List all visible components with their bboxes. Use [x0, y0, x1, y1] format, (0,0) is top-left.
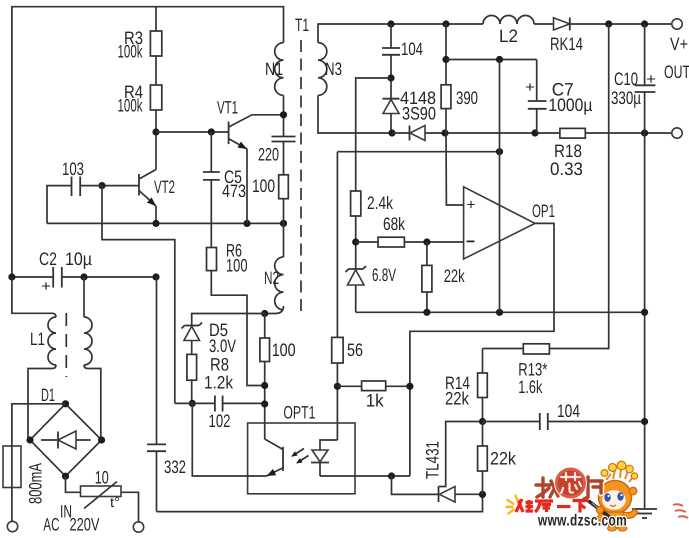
svg-text:D1: D1 — [41, 385, 55, 405]
node bus VT2 emitter — [152, 220, 159, 227]
node C2 left — [8, 273, 15, 280]
red squiggle right edge — [673, 504, 688, 518]
node output rail 390 — [442, 20, 449, 27]
inductor L1 right winding — [84, 317, 92, 365]
wire R4 to VT2 collector — [155, 110, 157, 170]
svg-text:www.dzsc.com: www.dzsc.com — [537, 513, 627, 530]
wire RK14 to V+ terminal — [570, 23, 672, 25]
resistor R4 — [150, 85, 161, 110]
svg-text:22k: 22k — [444, 266, 466, 286]
inductor L2 — [483, 16, 534, 24]
wire R8 bottom — [191, 380, 193, 403]
svg-text:TL431: TL431 — [423, 441, 443, 479]
svg-text:+: + — [41, 278, 51, 295]
red 维库一下 — [516, 499, 589, 513]
node L1 right top — [80, 273, 87, 280]
resistor R13 — [523, 344, 549, 354]
svg-text:C2: C2 — [39, 249, 57, 269]
capacitor 102 — [175, 396, 265, 431]
resistor 100 (N2) — [260, 338, 270, 362]
node output rail R13 — [605, 20, 612, 27]
resistor 390 — [441, 24, 478, 133]
resistor 68k — [378, 237, 404, 247]
svg-text:N3: N3 — [325, 59, 342, 79]
svg-text:+: + — [646, 71, 656, 88]
node R6 branch — [261, 382, 268, 389]
node D1 left — [26, 436, 33, 443]
svg-text:800mA: 800mA — [26, 463, 46, 504]
wire LED cathode to output vertical — [320, 475, 410, 477]
svg-text:332: 332 — [164, 457, 186, 477]
capacitor 332 — [147, 277, 186, 512]
svg-text:100: 100 — [272, 340, 296, 360]
svg-text:RK14: RK14 — [550, 34, 583, 54]
OPT1 light arrows — [291, 449, 309, 464]
svg-text:R18: R18 — [554, 141, 582, 161]
svg-text:68k: 68k — [383, 214, 406, 234]
resistor 22k (lower divider) — [478, 422, 517, 495]
wire 100 to OPT1 collector — [264, 362, 266, 440]
wire lower reference rail — [356, 311, 645, 313]
wire fuse internal — [11, 446, 13, 521]
capacitor C10 — [611, 24, 656, 133]
svg-text:0.33: 0.33 — [550, 159, 583, 179]
wire 56 feed vertical — [336, 152, 338, 338]
resistor 100 (snubber) — [279, 175, 289, 199]
wire R18 to OUT terminal — [585, 132, 672, 134]
resistor R18 — [560, 128, 585, 138]
bridge rectifier D1 — [30, 385, 102, 476]
wire R3-R4 — [155, 56, 157, 85]
yellow starburst — [507, 496, 518, 514]
svg-text:2.4k: 2.4k — [367, 193, 394, 213]
winding N1 — [275, 43, 284, 96]
wire main emitter bus — [47, 222, 284, 224]
magnifier circle with 芯 — [554, 467, 587, 500]
capacitor C2 — [12, 249, 156, 295]
wire L1 right top — [83, 277, 85, 317]
svg-text:22k: 22k — [490, 449, 517, 469]
node 56/1k/LED — [334, 383, 341, 390]
svg-text:t°: t° — [110, 494, 120, 510]
svg-text:3S90: 3S90 — [402, 104, 436, 124]
wire R3 top feed — [155, 7, 157, 31]
watermark dzsc.com group — [507, 461, 689, 531]
OPT1 phototransistor — [265, 439, 283, 476]
wire op-amp output — [410, 223, 554, 476]
wire N2 bottom hook — [265, 306, 284, 314]
node C2 right / 332 line — [152, 273, 159, 280]
transistor VT1 — [217, 98, 284, 224]
svg-text:AC: AC — [43, 515, 59, 535]
node D1 top — [62, 400, 69, 407]
wire N1 bottom to VT1 collector node — [283, 95, 285, 136]
node 102 branch — [261, 400, 268, 407]
wire N3 bottom to secondary return — [318, 95, 392, 133]
wire thermistor to AC right terminal — [121, 492, 139, 521]
node N2 bottom / D5 line — [261, 310, 268, 317]
node 4148 bottom — [388, 129, 395, 136]
svg-text:100k: 100k — [118, 42, 144, 62]
wire feedback line to 56 — [337, 151, 499, 153]
resistor 2.4k — [351, 191, 361, 216]
TL431 — [423, 422, 483, 503]
svg-text:VT1: VT1 — [217, 98, 238, 118]
node R8/102/emitter — [189, 400, 196, 407]
wire 68k left lead — [356, 241, 378, 243]
ground — [632, 509, 657, 518]
node 390 bottom — [441, 129, 448, 136]
svg-text:OP1: OP1 — [532, 201, 555, 221]
node OUT rail C10 — [641, 129, 648, 136]
OPT1 LED — [311, 440, 337, 476]
wire 56 bottom to LED — [336, 363, 338, 440]
terminal AC right — [133, 522, 143, 532]
node bus VT1 emitter — [243, 220, 250, 227]
node TL431 anode/22k/rail — [479, 491, 486, 498]
capacitor C7 — [525, 60, 592, 134]
node 68k/22k inverting — [423, 238, 430, 245]
wire noninverting input from 390 node — [446, 133, 464, 205]
winding N2 — [275, 257, 284, 310]
inductor L1 core (dashed) — [65, 313, 67, 377]
diode RK14 — [550, 18, 583, 55]
node output rail C10 — [641, 20, 648, 27]
svg-text:+: + — [467, 197, 476, 214]
svg-text:330µ: 330µ — [611, 88, 641, 108]
wire VT1 base — [156, 131, 229, 133]
zener 6.8V — [346, 265, 397, 312]
diode 4148 — [383, 88, 437, 133]
wire R14 bottom — [482, 398, 484, 422]
node 390 supply tap — [442, 56, 449, 63]
wire op-amp supply line — [446, 59, 537, 61]
wire R13 left lead — [483, 348, 524, 350]
node reference rail right — [641, 309, 648, 316]
terminal AC left — [7, 521, 17, 531]
node 104 right — [641, 418, 648, 425]
wire D1 top to fuse — [12, 404, 66, 446]
node D1 right — [98, 436, 105, 443]
wire R13 right to V+ rail — [549, 24, 608, 349]
svg-text:1.2k: 1.2k — [204, 372, 234, 392]
svg-text:N1: N1 — [265, 59, 283, 79]
svg-text:100k: 100k — [118, 96, 144, 116]
svg-text:OUT: OUT — [664, 62, 689, 82]
resistor R14 — [478, 373, 488, 398]
wire TL431 cathode branch — [392, 476, 439, 494]
svg-text:N2: N2 — [264, 268, 279, 288]
wire R14 top feed — [482, 349, 484, 374]
wire 2.4k to node — [355, 216, 357, 269]
terminal OUT- — [672, 128, 682, 138]
node 104/4148 junction — [387, 74, 394, 81]
capacitor 220 — [258, 137, 296, 165]
wire 220 to 100 — [283, 142, 285, 175]
node 2.4k/68k/zener — [352, 238, 359, 245]
wire VT2 base node down to feedback line — [102, 186, 175, 404]
svg-text:L1: L1 — [30, 329, 45, 349]
svg-text:220V: 220V — [70, 515, 100, 535]
svg-text:VT2: VT2 — [154, 177, 175, 197]
node 1k/output vertical — [406, 383, 413, 390]
svg-text:22k: 22k — [445, 389, 470, 409]
wire OPT1 emitter return — [192, 403, 266, 476]
terminal V+ — [672, 19, 682, 29]
svg-text:10µ: 10µ — [65, 249, 92, 269]
node bus N2 top — [280, 220, 287, 227]
svg-text:C10: C10 — [614, 69, 638, 89]
svg-text:100: 100 — [252, 176, 275, 196]
resistor 22k (op-amp) — [422, 242, 466, 312]
node C7 bottom — [531, 129, 538, 136]
winding N3 — [318, 43, 327, 96]
node VT2 base — [98, 182, 105, 189]
node VT1 collector / N1 — [280, 111, 287, 118]
wire op-amp power vertical — [499, 60, 501, 313]
node op-amp power bottom — [496, 309, 503, 316]
fuse 800mA — [3, 446, 21, 488]
wire D1 bottom to thermistor — [66, 476, 81, 492]
transformer T1 core (dashed) — [300, 40, 302, 315]
wire output rail segments — [391, 23, 483, 25]
thermistor 10 — [81, 467, 122, 510]
resistor R3 — [150, 31, 161, 56]
svg-text:V+: V+ — [670, 34, 688, 54]
wire right ground rail — [644, 133, 646, 509]
resistor 56 — [332, 337, 343, 363]
wire 1k left lead — [337, 385, 361, 387]
svg-text:1.6k: 1.6k — [518, 377, 543, 397]
node 22k bottom — [423, 309, 430, 316]
node D1 bottom — [62, 473, 69, 480]
wire bottom rail — [157, 494, 483, 511]
node C5 top junction — [208, 128, 215, 135]
svg-text:473: 473 — [222, 181, 246, 201]
optocoupler OPT1 box — [248, 423, 355, 494]
svg-text:1k: 1k — [366, 390, 385, 410]
svg-text:390: 390 — [456, 88, 478, 108]
mascot — [588, 461, 638, 531]
transistor VT2 — [102, 170, 175, 224]
svg-text:10: 10 — [95, 467, 109, 487]
capacitor 104 (snubber N3) — [382, 24, 423, 99]
wire N2 node to 100 — [264, 314, 266, 339]
wire L1 left bottom to bridge — [28, 365, 56, 440]
inductor L1 left winding — [48, 317, 56, 365]
wire top-left DC rail — [12, 7, 284, 277]
node output rail 104 — [387, 20, 394, 27]
zener D5 3.0V — [182, 314, 265, 357]
wire R6 bottom to OPT1 collector branch — [211, 271, 264, 386]
svg-text:100: 100 — [226, 255, 248, 275]
op-amp OP1 — [464, 187, 555, 259]
wire 104 node to 2.4k chain — [356, 78, 391, 191]
node feedback/power vertical — [496, 148, 503, 155]
node R14/22k/104/ref — [479, 418, 486, 425]
svg-text:104: 104 — [557, 401, 580, 421]
node op-amp supply vertical — [496, 56, 503, 63]
wire L1 right bottom to bridge — [84, 365, 101, 440]
wire L2 to RK14 — [534, 23, 554, 25]
svg-text:56: 56 — [347, 340, 363, 360]
stylized 找 and 片 with white halo — [536, 477, 602, 499]
diode 3S90 — [392, 126, 560, 141]
svg-text:102: 102 — [209, 411, 231, 431]
wire N3 top to output rail — [318, 24, 391, 43]
svg-text:+: + — [525, 79, 535, 96]
wire 103 right plate to VT2 base node — [80, 185, 102, 187]
wire 100 to bus — [283, 199, 285, 257]
capacitor 104 (comp) — [483, 401, 645, 430]
svg-text:6.8V: 6.8V — [372, 265, 396, 285]
node R4/VT1-base junction — [152, 128, 159, 135]
wire 68k to op-amp inverting input — [404, 241, 463, 243]
svg-text:3.0V: 3.0V — [209, 336, 236, 356]
svg-text:103: 103 — [62, 159, 84, 179]
svg-text:L2: L2 — [499, 26, 518, 46]
svg-text:1000µ: 1000µ — [548, 95, 592, 115]
svg-text:T1: T1 — [295, 15, 309, 35]
svg-text:OPT1: OPT1 — [283, 403, 315, 423]
svg-text:104: 104 — [401, 39, 423, 59]
svg-text:220: 220 — [258, 145, 279, 165]
resistor R8 — [187, 354, 197, 380]
wire 103 left plate loop to emitter bus — [47, 186, 72, 224]
wire 1k right lead — [386, 385, 410, 387]
capacitor 103 — [62, 159, 84, 196]
node LED/TL431 branch — [388, 472, 395, 479]
resistor 1k — [362, 381, 386, 391]
wire left rail to L1 left — [12, 277, 56, 317]
capacitor C5 — [203, 132, 246, 248]
resistor R6 — [207, 248, 217, 271]
